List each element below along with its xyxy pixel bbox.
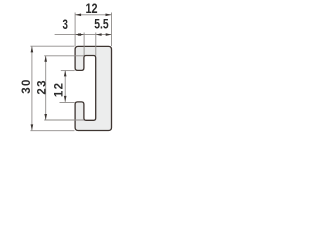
arrowhead 12 left [75, 14, 81, 17]
svg-text:3: 3 [63, 16, 69, 32]
extension line mouth top (for 12 left) [61, 70, 75, 72]
arrowhead 23 top [44, 56, 47, 62]
extension line mouth bottom (for 12 left) [60, 102, 75, 104]
svg-text:5.5: 5.5 [94, 16, 109, 32]
extension line cavity right wall (for 5.5) [95, 33, 97, 56]
extension line cavity bottom (for 23) [44, 119, 84, 121]
arrowhead 5.5 right (inside) [106, 33, 112, 36]
arrowhead 12 left bottom [64, 96, 67, 102]
extension line cavity top (for 23) [44, 55, 84, 57]
extension line top edge (for 30) [30, 45, 74, 47]
dimension line 23 [45, 56, 47, 120]
arrowhead 12 right [106, 14, 112, 17]
extension line bottom edge (for 30) [30, 130, 74, 132]
svg-text:12: 12 [85, 0, 97, 16]
svg-text:30: 30 [21, 78, 33, 93]
part body C-channel profile [75, 46, 111, 130]
arrowhead 5.5 left (inside) [96, 33, 102, 36]
dimension line row 3 / 5.5 [55, 34, 112, 36]
extension line left face (for 12 top / 3) [74, 13, 76, 47]
arrowhead 3 right (outside) [78, 33, 84, 36]
dimension line 12 (top) [75, 14, 111, 16]
arrowhead 3 left (outside) [75, 33, 81, 36]
extension line lip inner face (for 3) [83, 33, 85, 56]
arrowhead 30 bottom [31, 124, 34, 130]
arrowhead 30 top [31, 46, 34, 52]
svg-text:23: 23 [37, 79, 49, 94]
arrowhead 12 left top [64, 70, 67, 76]
dimension line 12 (left) [64, 70, 66, 102]
svg-text:12: 12 [53, 82, 65, 97]
extension line right face (for 12 top / 5.5) [111, 13, 113, 47]
dimension line 30 (left) [31, 46, 33, 130]
arrowhead 23 bottom [44, 114, 47, 120]
